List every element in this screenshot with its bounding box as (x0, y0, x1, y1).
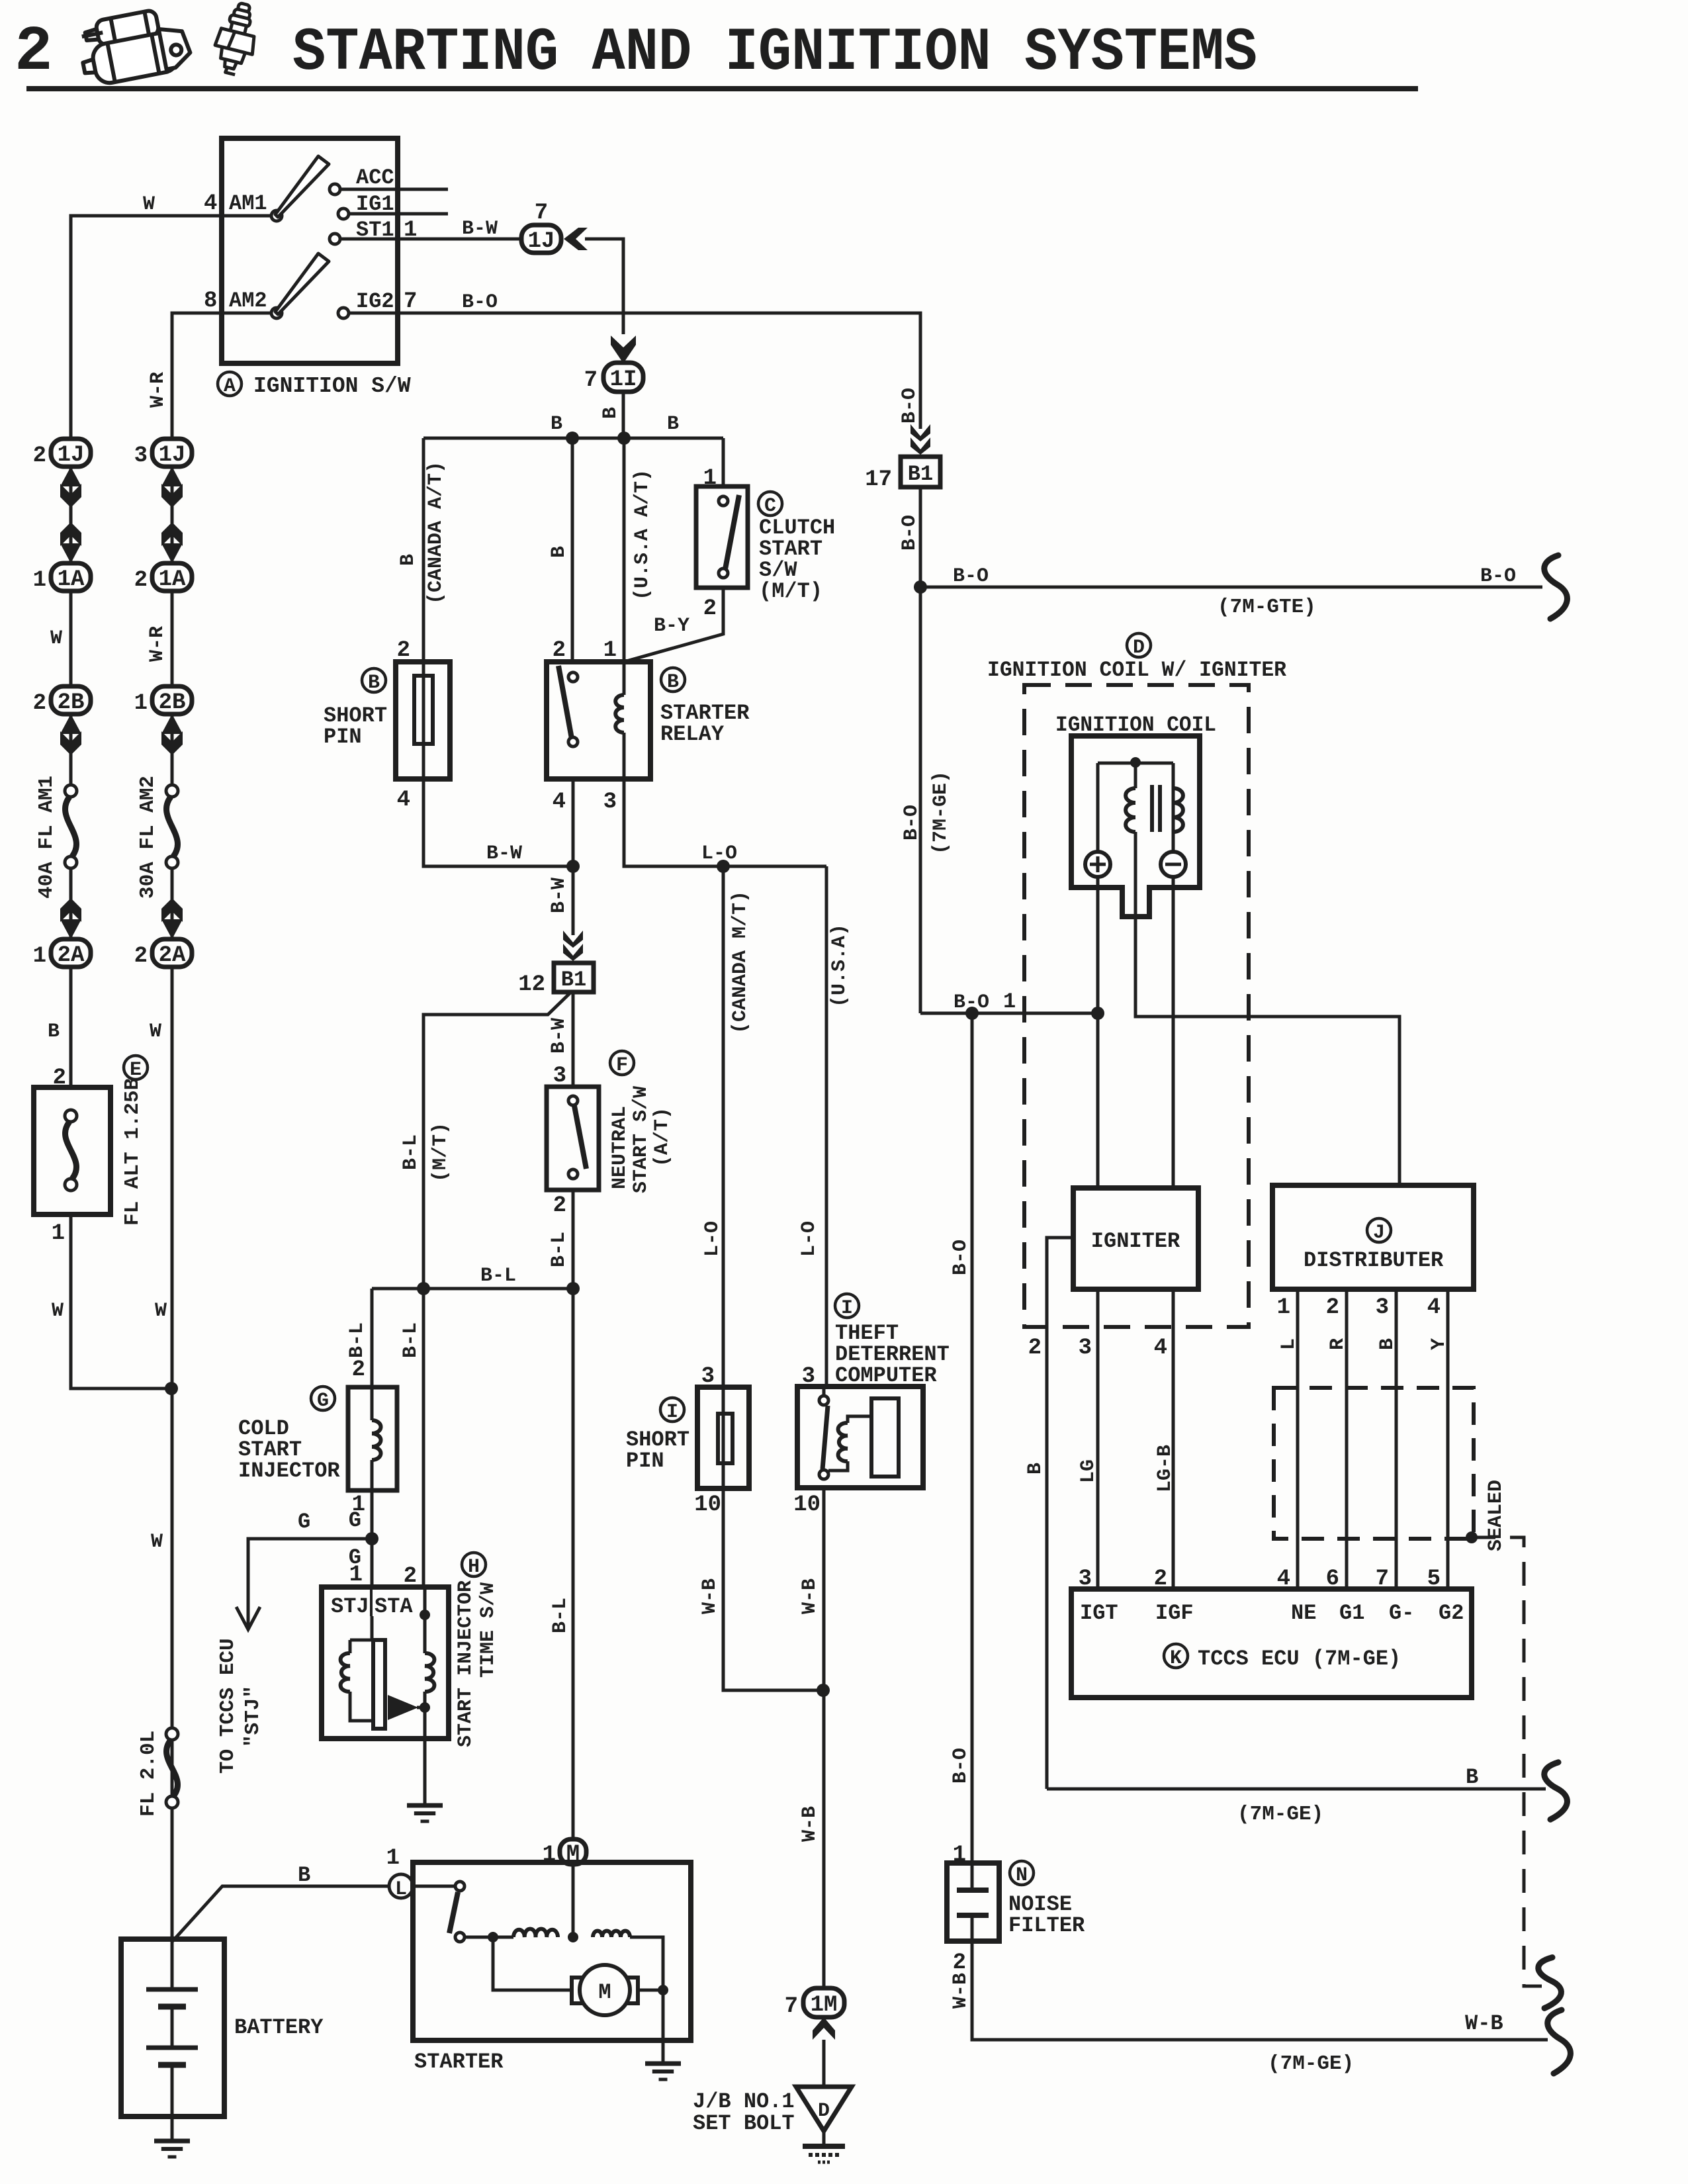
svg-text:G: G (298, 1510, 310, 1534)
wire contact2 to coils (465, 1936, 513, 1939)
svg-text:2B: 2B (58, 690, 85, 715)
wire label B-L horiz (480, 1265, 516, 1287)
wire B1 branch to MT line (423, 993, 570, 1289)
svg-text:2: 2 (553, 1193, 566, 1218)
svg-text:2A: 2A (159, 943, 186, 968)
svg-text:12: 12 (518, 972, 545, 997)
svg-text:B-L: B-L (549, 1598, 572, 1633)
wire label B-W col above B1 (548, 878, 570, 913)
label I circle TDC (835, 1294, 859, 1320)
connector 1 M at starter (543, 1839, 586, 1868)
wire label G below node (349, 1545, 361, 1570)
wire 1A to 2B left (69, 591, 73, 686)
svg-text:B-W: B-W (548, 878, 570, 913)
node B left (566, 432, 579, 445)
svg-text:4: 4 (397, 788, 410, 813)
pin 1 of starter terminal L (386, 1846, 400, 1871)
svg-text:A: A (224, 375, 236, 398)
relay blade (558, 666, 572, 739)
arrow down onto 1-1A (60, 522, 81, 563)
fusible link FL 2.0L (166, 1728, 178, 1808)
page number 2 (15, 16, 53, 88)
starter field coil 1 (513, 1929, 558, 1937)
label FL ALT 1.25B (121, 1078, 144, 1226)
svg-text:2: 2 (33, 691, 46, 716)
wire to motor left (493, 1937, 570, 1990)
svg-text:B-O: B-O (462, 291, 498, 314)
wire label B-O col1 (899, 388, 921, 424)
svg-text:IGF: IGF (1155, 1601, 1194, 1625)
FL ALT fuse symbol (65, 1110, 77, 1191)
node starter M (568, 1932, 578, 1942)
wire label W-R rotated (147, 372, 169, 408)
wire M oval into starter (572, 1864, 575, 1937)
wire distributor pin2 (1345, 1289, 1349, 1589)
wire label B-L injector col (346, 1322, 369, 1358)
svg-text:B-W: B-W (486, 842, 522, 865)
svg-text:G1: G1 (1339, 1601, 1364, 1625)
svg-text:AM1: AM1 (229, 191, 267, 216)
svg-text:B-L: B-L (548, 1232, 570, 1267)
coil primary winding (1126, 788, 1135, 832)
connector 3 1J (134, 439, 192, 469)
terminal label ACC (356, 165, 394, 190)
svg-text:4: 4 (1154, 1336, 1167, 1361)
svg-text:N: N (1016, 1864, 1028, 1887)
svg-text:L-O: L-O (798, 1221, 821, 1257)
wire minus down to igniter (1172, 877, 1175, 1188)
coil secondary winding (1173, 788, 1183, 832)
node H bottom (420, 1702, 430, 1713)
svg-text:L: L (395, 1878, 407, 1901)
svg-text:1I: 1I (610, 367, 637, 392)
svg-text:3: 3 (603, 790, 617, 815)
svg-text:B: B (548, 546, 570, 558)
clutch blade (725, 495, 739, 569)
wire STJ inside (350, 1616, 384, 1640)
svg-text:1: 1 (33, 568, 46, 593)
wire label B-O col2 (899, 515, 921, 551)
terminal label ST1 pin 1 (356, 218, 417, 243)
svg-text:1: 1 (603, 638, 617, 663)
wire label B-L MT (400, 1134, 422, 1170)
distributor pin numbers (1277, 1295, 1441, 1320)
wire ACC (340, 188, 448, 191)
wire B-O IG2 to right (349, 313, 920, 429)
arrow down onto 1-2A (60, 898, 81, 939)
wire 1M to set bolt (822, 2040, 826, 2087)
clutch start switch box (696, 486, 748, 588)
pin 2 clutch (703, 596, 717, 621)
label STARTER (414, 2050, 504, 2074)
svg-text:W: W (143, 193, 155, 216)
pin 1 relay (603, 638, 617, 663)
wire distributor pin1 (1296, 1289, 1300, 1589)
connector 7 1I (584, 363, 643, 393)
wire label B-O nf1 (950, 1240, 972, 1275)
wire label L-O canada col (701, 1221, 724, 1257)
wire TDC pin10 down (822, 1488, 826, 1990)
battery ground wire (171, 2116, 174, 2140)
arrow into 1J (564, 228, 588, 250)
svg-text:G: G (317, 1390, 329, 1412)
svg-text:B-W: B-W (548, 1018, 570, 1054)
wire IG1 (349, 212, 448, 216)
ECU pin numbers 4 6 7 5 (1277, 1567, 1441, 1592)
wire label B-O gte right (1480, 565, 1516, 588)
svg-text:10: 10 (793, 1492, 821, 1518)
connector 2 2B (33, 686, 91, 716)
wire STA inside (423, 1587, 427, 1653)
wire 2B to fuse right (171, 714, 174, 785)
ignition switch A box (222, 138, 398, 363)
TDC armature rect (871, 1398, 899, 1477)
svg-text:2: 2 (703, 596, 717, 621)
svg-text:B: B (667, 413, 679, 435)
wire canada-at drop (422, 438, 425, 662)
svg-text:(7M-GE): (7M-GE) (930, 771, 952, 854)
wire 1I to node B (622, 392, 625, 438)
label USA (828, 924, 851, 1007)
ignition switch blade AM2 (275, 253, 329, 314)
neutral contact top (568, 1096, 578, 1105)
svg-text:D: D (818, 2100, 830, 2122)
relay coil (615, 662, 624, 779)
pin 2 STA (404, 1564, 417, 1589)
wire label B-O nf2 (950, 1748, 972, 1784)
label 7M-GE col (930, 771, 952, 854)
svg-text:ACC: ACC (356, 165, 394, 190)
svg-text:STARTER: STARTER (414, 2050, 504, 2074)
svg-text:(A/T): (A/T) (651, 1107, 674, 1167)
pin 2 injector (352, 1357, 365, 1383)
break symbol B-O GTE (1544, 555, 1568, 619)
label FL 2.0L (137, 1731, 160, 1817)
svg-text:1: 1 (52, 1221, 65, 1246)
wire label L-O horiz (701, 842, 737, 865)
dashed assembly box (1024, 685, 1249, 1327)
wire G to TCCS arrow (236, 1539, 372, 1629)
wire 2B to fuse left (69, 714, 73, 785)
svg-text:(M/T): (M/T) (759, 579, 822, 604)
svg-text:K: K (1170, 1647, 1182, 1670)
starter contact 2 (455, 1933, 465, 1942)
svg-text:1: 1 (1277, 1295, 1290, 1320)
svg-text:B: B (1466, 1765, 1478, 1790)
short pin I wire (722, 1387, 725, 1488)
svg-text:W: W (155, 1300, 167, 1322)
wire B-L to cold start injector (371, 1289, 374, 1387)
connector 7 1J (521, 201, 561, 254)
svg-text:2: 2 (134, 568, 148, 593)
connector 7 1M (785, 1988, 844, 2019)
svg-text:4: 4 (553, 790, 566, 815)
svg-text:10: 10 (694, 1492, 721, 1518)
pin 10 short pin I (694, 1492, 721, 1518)
svg-text:B: B (600, 407, 622, 419)
svg-text:8: 8 (204, 289, 217, 314)
pin 3 relay (603, 790, 617, 815)
svg-text:2: 2 (134, 944, 148, 969)
wire B-O 1 horizontal (920, 1012, 1098, 1015)
svg-text:FILTER: FILTER (1008, 1913, 1085, 1938)
svg-text:1: 1 (1003, 989, 1016, 1014)
short pin B inner (414, 676, 433, 744)
svg-text:G: G (349, 1508, 361, 1533)
svg-text:B-L: B-L (400, 1134, 422, 1170)
label J DISTRIBUTER (1304, 1218, 1444, 1273)
wire B-L neutral line to starter M (572, 1289, 575, 1841)
wire label B-Y (654, 615, 689, 637)
wire label B battery (298, 1863, 310, 1888)
svg-text:INJECTOR: INJECTOR (238, 1459, 340, 1483)
pin 1 noise filter (953, 1843, 966, 1868)
svg-text:1A: 1A (159, 567, 186, 592)
svg-text:M: M (566, 1842, 580, 1867)
wire label W-B nf (950, 1973, 972, 2009)
svg-text:1J: 1J (159, 443, 186, 468)
short pin I box (697, 1387, 749, 1488)
svg-text:R: R (1327, 1338, 1349, 1350)
arrow up into 1M (813, 2017, 835, 2040)
node B-L left (417, 1282, 430, 1295)
starter field coil 2 (593, 1931, 630, 1938)
wire igniter B pin (1047, 1238, 1073, 1789)
ground below H (407, 1805, 443, 1821)
pin 1 STJ (349, 1563, 363, 1588)
svg-text:IGT: IGT (1080, 1601, 1118, 1625)
wire B-Y clutch to relay pin1 (624, 588, 723, 662)
connector 1 2B (134, 686, 192, 716)
svg-text:W: W (151, 1531, 163, 1553)
wire 1A to 2B right (171, 591, 174, 686)
relay contact top (568, 672, 578, 682)
label B STARTER RELAY (660, 668, 750, 747)
pin 1 FL ALT (52, 1221, 65, 1246)
wire clutch drop (722, 438, 725, 486)
svg-text:STA: STA (375, 1594, 413, 1619)
wire B-L horizontal (372, 1287, 573, 1291)
svg-text:B: B (298, 1863, 310, 1888)
label J/B NO.1 SET BOLT (693, 2089, 795, 2136)
coil core bars (1152, 785, 1160, 832)
label IGNITER (1091, 1229, 1180, 1253)
theft deterrent computer box (797, 1387, 923, 1488)
svg-text:B-L: B-L (400, 1322, 422, 1358)
svg-text:STJ: STJ (331, 1594, 369, 1619)
svg-text:IG2: IG2 (356, 289, 394, 314)
svg-text:2: 2 (553, 638, 566, 663)
wire label B-W horizontal (486, 842, 522, 865)
label N NOISE FILTER (1008, 1861, 1085, 1938)
svg-text:Y: Y (1428, 1338, 1450, 1350)
pin 3 short pin I (701, 1364, 715, 1389)
svg-text:IGNITION COIL W/ IGNITER: IGNITION COIL W/ IGNITER (987, 658, 1287, 682)
svg-text:TIME S/W: TIME S/W (477, 1582, 500, 1678)
wire label L-O usa col (798, 1221, 821, 1257)
label 7M-GE bottom b (1237, 1803, 1323, 1826)
wire injector to G node (371, 1490, 374, 1587)
svg-text:2: 2 (33, 443, 46, 469)
svg-text:W-B: W-B (799, 1578, 821, 1614)
short pin B box (396, 662, 450, 779)
wire label B canada col (397, 554, 420, 566)
label 40A FL AM1 (35, 776, 58, 899)
ignition switch contact AM2 (271, 308, 282, 318)
starter blade (449, 1892, 458, 1933)
svg-text:7: 7 (404, 289, 417, 314)
wire FL ALT to join (71, 1214, 171, 1388)
relay contact bottom (568, 737, 578, 747)
wire label B h1 (551, 413, 562, 435)
terminal label IG2 pin 7 (356, 289, 417, 314)
svg-text:"STJ": "STJ" (242, 1686, 265, 1747)
svg-text:I: I (841, 1297, 853, 1320)
wire 1J to 1A right (171, 465, 174, 563)
ECU terminal labels (1080, 1601, 1464, 1625)
wire relay pin1 drop (623, 438, 626, 662)
label E circle (124, 1056, 148, 1081)
svg-text:B-O: B-O (899, 515, 921, 551)
svg-text:(7M-GE): (7M-GE) (1268, 2052, 1354, 2075)
start injector time switch box (322, 1587, 449, 1739)
svg-text:B: B (667, 671, 679, 694)
svg-text:B-O: B-O (950, 1748, 972, 1784)
starter contact from L (413, 1882, 465, 1891)
label D circle (1127, 633, 1151, 659)
svg-text:2: 2 (397, 638, 410, 663)
pin 4 short pin B (397, 788, 410, 813)
short pin I inner (718, 1414, 733, 1463)
pin 2 short pin B (397, 638, 410, 663)
wire B ECU bottom (1047, 1788, 1546, 1791)
node coil plus (1091, 1007, 1104, 1020)
svg-text:FL 2.0L: FL 2.0L (137, 1731, 160, 1817)
svg-text:W: W (50, 627, 62, 650)
svg-text:TO TCCS ECU: TO TCCS ECU (216, 1638, 240, 1774)
wire label LG-B (1154, 1445, 1177, 1492)
label TO TCCS ECU STJ (216, 1638, 265, 1774)
fusible link 30A FL AM2 (166, 785, 178, 868)
svg-text:(U.S.A A/T): (U.S.A A/T) (631, 469, 654, 600)
coil minus terminal (1161, 852, 1186, 877)
svg-text:1J: 1J (58, 443, 85, 468)
node sealed corner (1466, 1531, 1478, 1543)
H left coil (341, 1640, 373, 1721)
svg-text:(CANADA M/T): (CANADA M/T) (729, 891, 752, 1034)
ignition switch contact ST1 (330, 234, 340, 244)
svg-text:W-B: W-B (950, 1973, 972, 2009)
label B-O 1 (954, 989, 1016, 1014)
node starter coil left (488, 1932, 498, 1942)
svg-text:I: I (666, 1401, 678, 1424)
svg-text:(CANADA A/T): (CANADA A/T) (425, 461, 447, 604)
wire 2A to FL ALT (69, 967, 73, 1087)
node B-W (566, 860, 580, 873)
svg-text:(U.S.A): (U.S.A) (828, 924, 851, 1007)
svg-text:1: 1 (134, 691, 148, 716)
svg-text:B: B (1376, 1338, 1399, 1350)
label H START INJECTOR TIME SW (455, 1553, 500, 1747)
wire relay pin2 drop (571, 438, 574, 662)
svg-text:2: 2 (352, 1357, 365, 1383)
label B SHORT PIN (324, 668, 387, 749)
wire label W below FL ALT (52, 1300, 64, 1322)
svg-text:B-O: B-O (953, 565, 989, 588)
svg-text:B-O: B-O (950, 1240, 972, 1275)
wire B1 down to neutral sw (572, 992, 575, 1087)
svg-text:SET BOLT: SET BOLT (693, 2111, 795, 2136)
svg-text:7: 7 (584, 368, 598, 393)
wire node B horizontal (423, 437, 723, 440)
battery box (121, 1939, 224, 2116)
TDC contact bottom (819, 1470, 828, 1479)
svg-text:3: 3 (1376, 1295, 1389, 1320)
pin 3 TDC (802, 1364, 815, 1389)
wire fuse to 2A left (69, 868, 73, 939)
svg-text:3: 3 (553, 1064, 566, 1089)
wire neutral to B-L node (572, 1190, 575, 1289)
wire label B-O ig2 (462, 291, 498, 314)
fusible link E FL ALT 1.25B box (34, 1087, 111, 1214)
pin label 8 AM2 (204, 289, 267, 314)
wire distributor pin4 (1446, 1289, 1450, 1589)
node join left columns (165, 1382, 178, 1395)
svg-text:B: B (551, 413, 562, 435)
svg-text:LG: LG (1077, 1459, 1100, 1483)
svg-text:(7M-GE): (7M-GE) (1237, 1803, 1323, 1826)
clutch contact top (719, 496, 728, 506)
pin 1 injector (352, 1492, 365, 1518)
break symbol B (1544, 1762, 1568, 1819)
svg-text:SEALED: SEALED (1485, 1480, 1507, 1551)
svg-text:3: 3 (1079, 1336, 1092, 1361)
svg-text:1: 1 (543, 1843, 556, 1868)
svg-text:1: 1 (386, 1846, 400, 1871)
wire coil center tap to distributor (1135, 832, 1399, 1185)
wire plus to junction to igniter (1096, 877, 1100, 1188)
svg-text:PIN: PIN (626, 1449, 664, 1473)
svg-text:B-O: B-O (1480, 565, 1516, 588)
svg-text:W-R: W-R (147, 372, 169, 408)
wire short pin I to W-B node (723, 1488, 823, 1690)
svg-text:START S/W: START S/W (630, 1086, 652, 1193)
starter box (413, 1862, 691, 2040)
svg-text:NEUTRAL: NEUTRAL (609, 1106, 631, 1189)
title rule (26, 86, 1418, 91)
connector 17 B1 (865, 457, 940, 492)
pin 10 TDC (793, 1492, 821, 1518)
label G COLD START INJECTOR (238, 1387, 340, 1483)
wire B-L to STA (422, 1289, 425, 1587)
label IGNITION COIL (1055, 713, 1216, 737)
wire label B left column (48, 1021, 60, 1043)
svg-text:1: 1 (349, 1563, 363, 1588)
ignition coil box (1071, 736, 1200, 917)
svg-text:3: 3 (134, 443, 148, 469)
wire distributor pin3 (1395, 1289, 1398, 1589)
node B right (617, 432, 631, 445)
break symbol W-B (1548, 2010, 1571, 2073)
ground inside starter (645, 2064, 681, 2079)
TDC blade (822, 1406, 828, 1469)
svg-text:H: H (468, 1556, 480, 1578)
svg-text:W: W (52, 1300, 64, 1322)
arrows into B1 12 (563, 931, 583, 961)
arrow up into 1-2B (161, 714, 183, 755)
wire B-W ST1 to connector 1J (340, 238, 522, 241)
svg-text:F: F (616, 1054, 628, 1077)
